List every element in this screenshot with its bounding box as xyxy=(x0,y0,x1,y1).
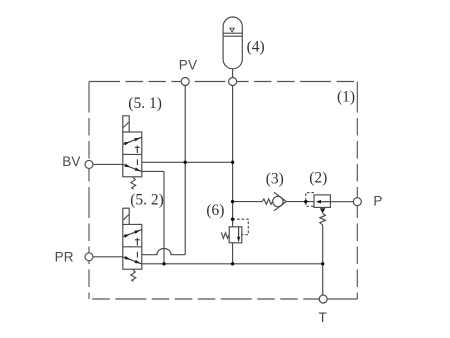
svg-text:P: P xyxy=(373,194,382,209)
svg-text:(4): (4) xyxy=(247,39,265,56)
svg-text:(3): (3) xyxy=(266,171,284,188)
svg-text:(1): (1) xyxy=(337,88,355,105)
svg-text:T: T xyxy=(319,310,327,325)
svg-text:PV: PV xyxy=(179,57,197,72)
svg-text:(6): (6) xyxy=(206,202,224,219)
svg-text:PR: PR xyxy=(55,250,74,265)
svg-text:(5. 2): (5. 2) xyxy=(130,192,164,209)
svg-text:BV: BV xyxy=(62,154,80,169)
svg-text:(5. 1): (5. 1) xyxy=(128,95,162,112)
svg-text:(2): (2) xyxy=(309,170,327,187)
